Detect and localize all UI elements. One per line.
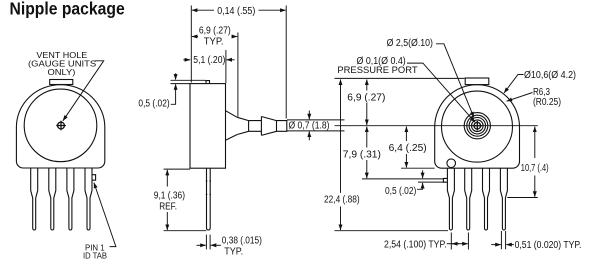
svg-text:(R0.25): (R0.25)	[533, 97, 561, 108]
svg-text:6,4 (.25): 6,4 (.25)	[389, 143, 427, 154]
pressure port rings	[464, 113, 490, 139]
svg-text:0,14 (.55): 0,14 (.55)	[217, 6, 255, 17]
rear view body outline	[435, 85, 520, 169]
leader Ø 2,5	[436, 44, 474, 118]
rear pin1 id tab step	[443, 178, 447, 182]
svg-text:10,7 (.4): 10,7 (.4)	[521, 163, 549, 174]
dimension 6,9 (.27) rear	[366, 80, 368, 126]
dimension 0,38 (.015) TYP	[197, 235, 221, 250]
nipple cone 2	[237, 117, 248, 134]
vent hole label	[28, 51, 96, 77]
label PRESSURE PORT	[337, 65, 417, 76]
svg-text:REF.: REF.	[159, 201, 177, 212]
rear top extension line	[335, 77, 465, 79]
svg-text:0,38 (.015): 0,38 (.015)	[222, 236, 262, 247]
tab lower extension line	[418, 181, 444, 183]
svg-text:5,1 (.20): 5,1 (.20)	[193, 55, 225, 66]
dimension 0,5 (.02) side	[171, 73, 206, 104]
dimension 7,9 (.31)	[366, 127, 368, 179]
nipple barb	[261, 117, 276, 136]
rear view inner circle	[442, 91, 513, 162]
leader R6,3	[507, 93, 533, 102]
dimension 6,9 (.27) TYP side	[192, 33, 238, 117]
front view top tab	[50, 80, 73, 85]
dimension 0,51 (0.020) TYP	[491, 231, 514, 249]
svg-text:Ø10,6(Ø 4.2): Ø10,6(Ø 4.2)	[524, 70, 576, 81]
rear pin 3	[483, 168, 490, 230]
front pin 2	[49, 168, 56, 230]
leader Ø10,6	[504, 75, 524, 94]
front view body outline	[16, 85, 104, 168]
10,7 bottom extension line	[507, 197, 537, 199]
dimension 9,1 (.36) REF	[164, 169, 207, 231]
rear bottom extension line	[335, 230, 449, 232]
svg-text:Ø 0,7 (1.8): Ø 0,7 (1.8)	[289, 121, 330, 132]
dimension 0,14 (.55)	[191, 6, 286, 119]
side view top bump	[206, 81, 210, 84]
svg-text:0,5 (.02): 0,5 (.02)	[385, 186, 416, 197]
dimension Ø 0,7 (1.8)	[287, 111, 345, 141]
svg-text:PRESSURE PORT: PRESSURE PORT	[337, 65, 417, 76]
svg-text:0,51 (0.020) TYP.: 0,51 (0.020) TYP.	[515, 240, 582, 251]
dimension 22,4 (.88)	[340, 80, 342, 231]
rear centerline	[335, 125, 538, 127]
rear pin 4	[500, 168, 507, 230]
svg-text:9,1 (.36): 9,1 (.36)	[154, 190, 185, 201]
tab bottom extension line	[362, 178, 443, 180]
nipple cone 1	[226, 111, 238, 141]
svg-text:2,54 (.100) TYP.: 2,54 (.100) TYP.	[384, 239, 447, 250]
label R6,3 (R0.25)	[533, 87, 561, 108]
side view pin	[207, 168, 211, 230]
dimension 2,54 (.100) TYP	[447, 233, 469, 250]
svg-text:ONLY): ONLY)	[48, 68, 76, 77]
rear small circle	[447, 159, 456, 168]
pin 1 id tab label	[83, 244, 107, 261]
nipple cylinder 1	[249, 121, 262, 132]
pin 1 id tab leader	[94, 183, 116, 247]
rear pin 1	[447, 168, 454, 230]
svg-text:7,9 (.31): 7,9 (.31)	[343, 149, 381, 160]
front pin 3	[67, 168, 74, 230]
svg-text:Ø 2,5(Ø.10): Ø 2,5(Ø.10)	[387, 38, 433, 49]
svg-text:22,4 (.88): 22,4 (.88)	[324, 194, 360, 205]
svg-text:Nipple package: Nipple package	[10, 0, 125, 19]
label Ø 0,1 (Ø 0.4)	[357, 56, 406, 67]
vent hole leader	[63, 61, 104, 121]
svg-text:ID TAB: ID TAB	[83, 252, 107, 261]
svg-text:6,9 (.27): 6,9 (.27)	[199, 25, 231, 36]
port center hole symbol	[473, 121, 483, 131]
rear view top tab	[465, 78, 489, 85]
nipple end cylinder	[277, 121, 287, 132]
dimension 10,7 (.4)	[534, 127, 536, 197]
front pin 1	[31, 168, 38, 230]
front pin 4	[85, 168, 92, 230]
vent hole symbol	[56, 121, 66, 131]
dimension 6,4 (.25)	[405, 127, 407, 168]
body bottom extension line	[401, 167, 435, 169]
label Ø 2,5 (Ø.10)	[387, 38, 433, 49]
svg-text:0,5 (.02): 0,5 (.02)	[138, 98, 169, 109]
dimension 5,1 (.20)	[183, 50, 234, 83]
title	[10, 0, 125, 19]
label Ø10,6 (Ø 4.2)	[524, 70, 576, 81]
svg-text:TYP.: TYP.	[224, 246, 243, 257]
pin1 id tab step	[92, 175, 96, 181]
svg-text:TYP.: TYP.	[204, 36, 224, 47]
leader Ø 0,1 pressure port	[407, 63, 475, 122]
dimension 0,5 (.02) rear	[417, 170, 423, 189]
front view inner circle	[24, 89, 97, 162]
rear pin 2	[465, 168, 472, 230]
side view body	[190, 84, 226, 169]
side pin tick marks	[206, 181, 211, 194]
svg-text:6,9 (.27): 6,9 (.27)	[347, 92, 385, 103]
